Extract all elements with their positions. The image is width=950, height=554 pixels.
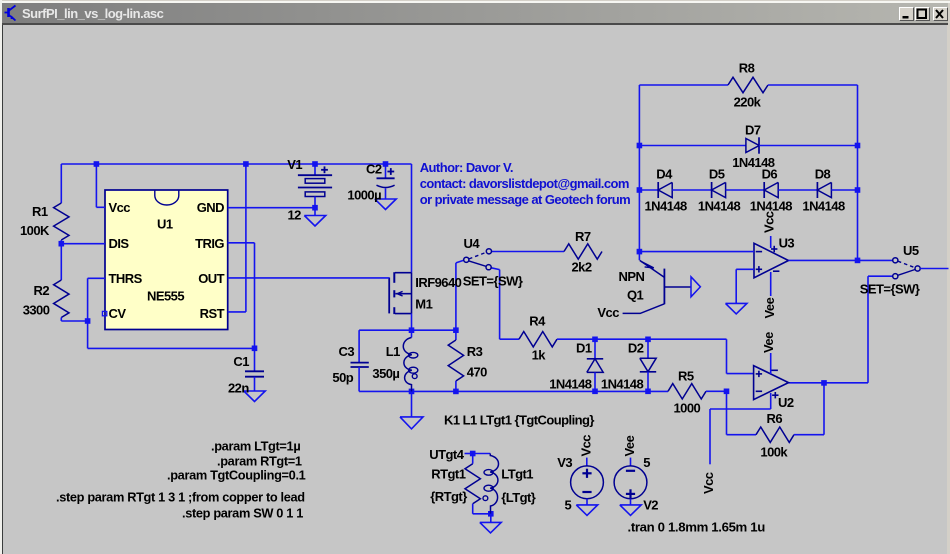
svg-text:SET={SW}: SET={SW} [463, 273, 523, 288]
svg-text:D2: D2 [628, 340, 644, 355]
svg-text:5: 5 [643, 455, 650, 470]
svg-text:R6: R6 [767, 411, 783, 426]
svg-text:.param RTgt=1: .param RTgt=1 [217, 453, 302, 468]
svg-text:R5: R5 [678, 369, 694, 384]
svg-text:22n: 22n [228, 380, 249, 395]
svg-text:1k: 1k [532, 347, 547, 362]
svg-text:L1: L1 [386, 344, 400, 359]
svg-text:1000µ: 1000µ [347, 187, 381, 202]
svg-text:Vcc: Vcc [762, 211, 777, 233]
svg-text:contact: davorslistdepot@gmail: contact: davorslistdepot@gmail.com [420, 176, 629, 191]
svg-text:Vcc: Vcc [579, 435, 594, 457]
svg-text:R4: R4 [529, 313, 546, 328]
svg-text:100k: 100k [760, 444, 788, 459]
svg-text:.tran 0 1.8mm 1.65m 1u: .tran 0 1.8mm 1.65m 1u [628, 519, 766, 534]
svg-text:220k: 220k [734, 94, 762, 109]
svg-text:NPN: NPN [619, 269, 645, 284]
svg-text:.step param RTgt 1 3 1 ;from c: .step param RTgt 1 3 1 ;from copper to l… [56, 489, 305, 504]
svg-text:1N4148: 1N4148 [601, 377, 644, 392]
svg-text:RTgt1: RTgt1 [431, 466, 465, 481]
svg-text:.param LTgt=1µ: .param LTgt=1µ [211, 439, 300, 454]
svg-text:1N4148: 1N4148 [645, 198, 688, 213]
svg-text:TRIG: TRIG [195, 236, 224, 251]
svg-text:R2: R2 [34, 283, 50, 298]
svg-text:R1: R1 [32, 204, 48, 219]
svg-text:D7: D7 [745, 122, 761, 137]
svg-text:D6: D6 [762, 167, 778, 182]
svg-text:D5: D5 [709, 167, 725, 182]
svg-text:V1: V1 [287, 157, 302, 172]
svg-text:RST: RST [200, 306, 225, 321]
svg-text:1000: 1000 [674, 401, 701, 416]
svg-text:{LTgt}: {LTgt} [501, 490, 535, 505]
svg-text:C1: C1 [233, 354, 249, 369]
svg-text:V2: V2 [643, 497, 658, 512]
svg-text:U5: U5 [903, 243, 919, 258]
svg-text:DIS: DIS [109, 236, 130, 251]
svg-text:Vee: Vee [622, 435, 637, 456]
svg-text:1N4148: 1N4148 [750, 198, 793, 213]
svg-text:2k2: 2k2 [572, 260, 592, 275]
svg-text:V3: V3 [557, 455, 572, 470]
svg-text:Vcc: Vcc [701, 472, 716, 494]
svg-text:NE555: NE555 [147, 288, 184, 303]
svg-text:R8: R8 [739, 60, 755, 75]
svg-text:1N4148: 1N4148 [698, 198, 741, 213]
svg-text:470: 470 [467, 365, 487, 380]
svg-text:D1: D1 [576, 340, 592, 355]
svg-text:100K: 100K [20, 223, 50, 238]
svg-text:.param TgtCoupling=0.1: .param TgtCoupling=0.1 [167, 467, 306, 482]
svg-text:CV: CV [109, 306, 127, 321]
svg-text:12: 12 [288, 208, 302, 223]
svg-text:3300: 3300 [23, 303, 50, 318]
svg-text:1N4148: 1N4148 [802, 198, 845, 213]
svg-text:M1: M1 [415, 297, 432, 312]
svg-text:Vee: Vee [762, 297, 777, 318]
svg-text:{RTgt}: {RTgt} [430, 489, 467, 504]
svg-text:Q1: Q1 [627, 287, 644, 302]
svg-text:Vcc: Vcc [109, 200, 131, 215]
svg-text:IRF9640: IRF9640 [415, 275, 461, 290]
svg-text:R3: R3 [467, 344, 483, 359]
svg-text:1N4148: 1N4148 [549, 377, 592, 392]
svg-text:THRS: THRS [109, 271, 143, 286]
svg-text:D8: D8 [815, 167, 831, 182]
svg-text:U3: U3 [779, 236, 795, 251]
svg-text:Vee: Vee [761, 332, 776, 353]
svg-text:5: 5 [565, 497, 572, 512]
svg-text:K1 L1 LTgt1 {TgtCoupling}: K1 L1 LTgt1 {TgtCoupling} [444, 413, 594, 428]
svg-text:50p: 50p [332, 370, 353, 385]
svg-text:OUT: OUT [198, 271, 224, 286]
svg-text:Author: Davor V.: Author: Davor V. [420, 160, 513, 175]
svg-text:D4: D4 [656, 167, 673, 182]
svg-text:LTgt1: LTgt1 [501, 466, 533, 481]
svg-text:U1: U1 [157, 217, 173, 232]
svg-text:350µ: 350µ [372, 366, 399, 381]
svg-text:U4: U4 [464, 236, 481, 251]
svg-text:SET={SW}: SET={SW} [860, 281, 920, 296]
svg-text:U2: U2 [778, 395, 794, 410]
svg-text:C2: C2 [366, 161, 382, 176]
svg-text:.step param SW 0 1 1: .step param SW 0 1 1 [182, 505, 303, 520]
svg-text:UTgt4: UTgt4 [429, 447, 464, 462]
svg-text:or private message at Geotech: or private message at Geotech forum [420, 192, 631, 207]
svg-text:GND: GND [197, 200, 224, 215]
svg-text:Vcc: Vcc [597, 305, 619, 320]
svg-text:R7: R7 [575, 229, 591, 244]
svg-text:C3: C3 [339, 344, 355, 359]
